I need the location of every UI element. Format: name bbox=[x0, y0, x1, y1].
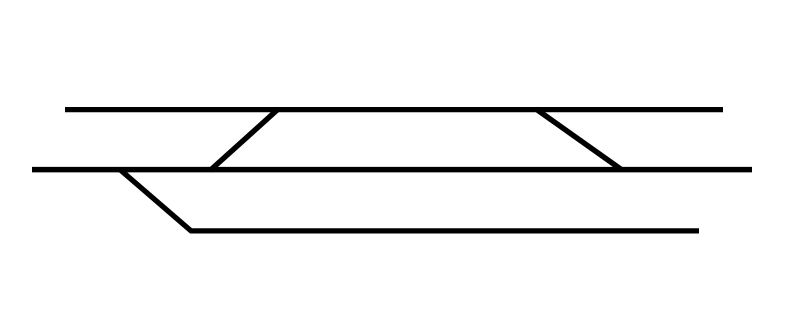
middle track line bbox=[32, 167, 752, 173]
right crossover diagonal (top down to middle) bbox=[536, 109, 622, 170]
siding turnout diagonal and bottom track line bbox=[120, 170, 699, 231]
left crossover diagonal (middle up to top) bbox=[210, 109, 279, 171]
top track line bbox=[65, 107, 723, 112]
